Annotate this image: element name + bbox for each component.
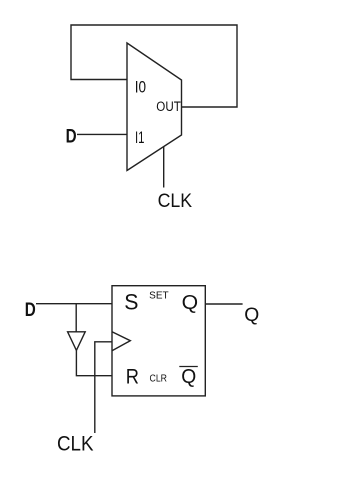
svg-text:D: D bbox=[25, 299, 36, 321]
svg-text:SET: SET bbox=[149, 290, 169, 301]
svg-text:I0: I0 bbox=[135, 79, 146, 97]
svg-text:R: R bbox=[126, 365, 139, 389]
svg-text:CLK: CLK bbox=[57, 432, 94, 456]
svg-text:Q: Q bbox=[244, 304, 259, 326]
svg-text:I1: I1 bbox=[135, 129, 145, 147]
svg-text:Q: Q bbox=[181, 365, 196, 388]
svg-text:OUT: OUT bbox=[156, 99, 181, 115]
svg-text:CLR: CLR bbox=[150, 374, 168, 385]
svg-text:D: D bbox=[66, 126, 77, 148]
svg-text:Q: Q bbox=[182, 292, 199, 314]
svg-text:S: S bbox=[124, 290, 138, 315]
svg-text:CLK: CLK bbox=[158, 190, 193, 212]
